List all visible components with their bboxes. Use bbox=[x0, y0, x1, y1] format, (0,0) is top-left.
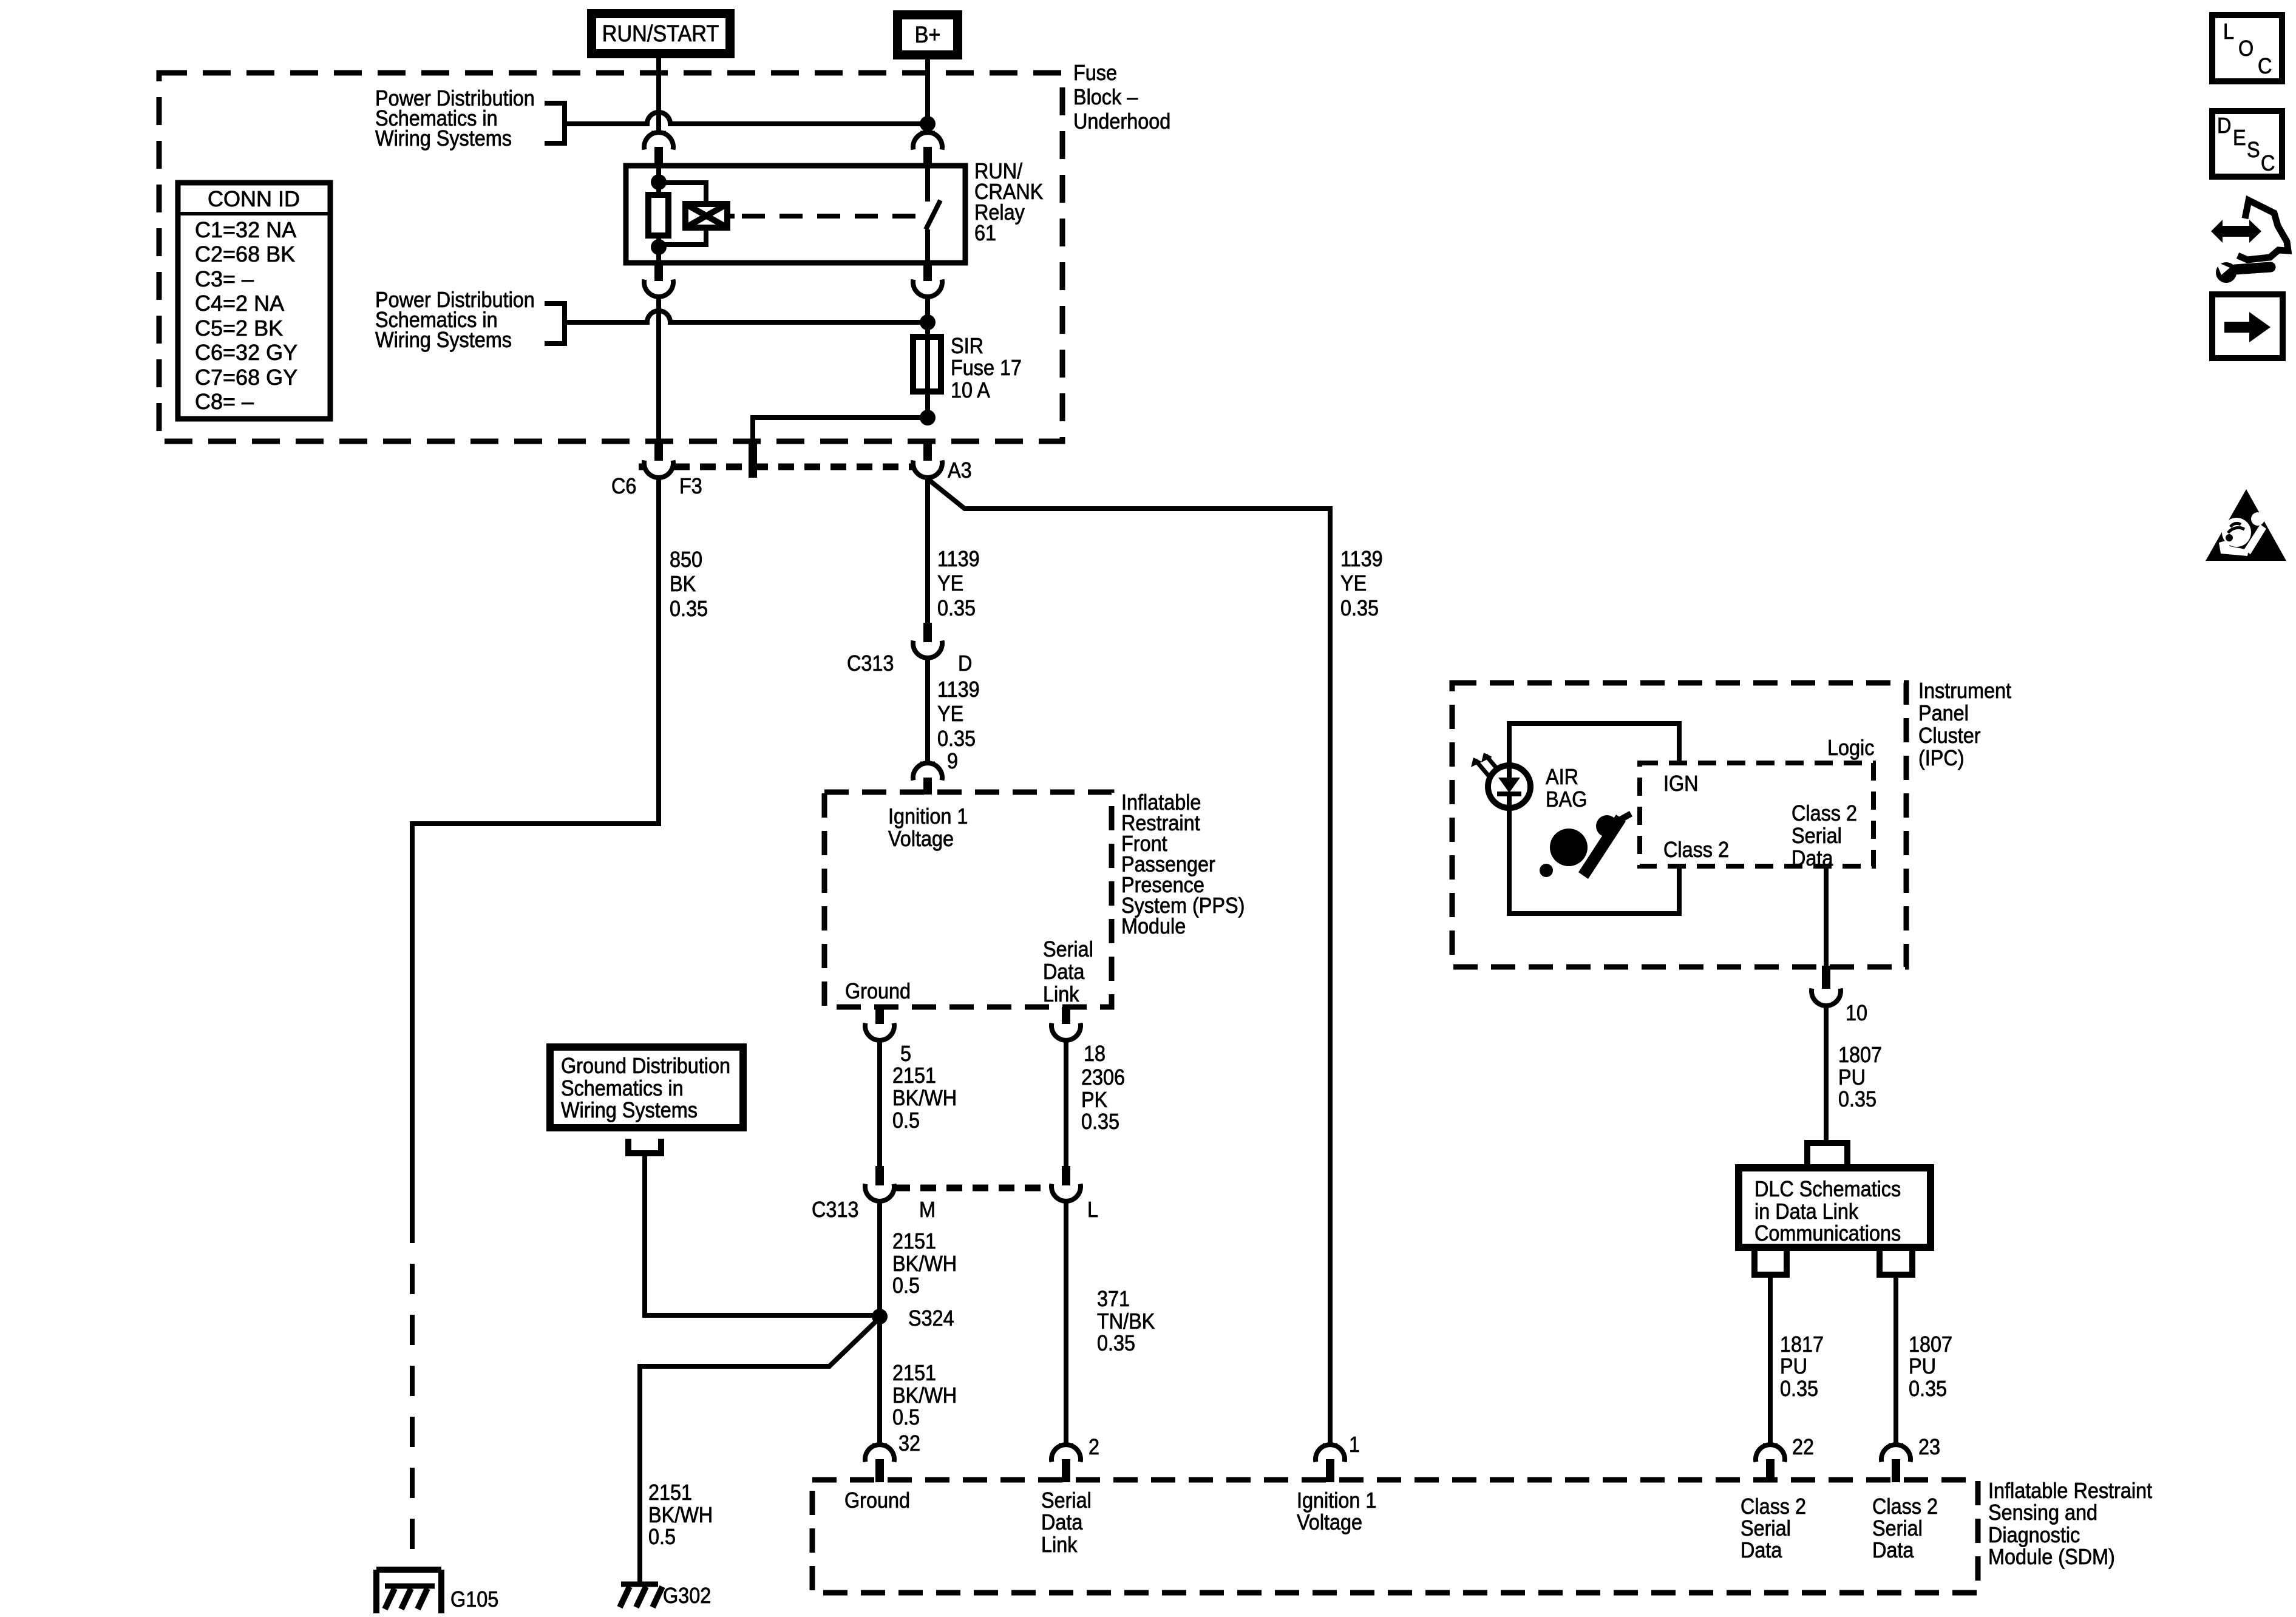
svg-text:1817: 1817 bbox=[1780, 1332, 1824, 1357]
svg-text:O: O bbox=[2238, 36, 2254, 61]
wire C313 L down to SDM pin 2 bbox=[1064, 1201, 1068, 1445]
wire class 2 serial data down to IPC pin 10 bbox=[1824, 866, 1829, 966]
icon adjust/replace (double arrow with wrench) bbox=[2211, 200, 2288, 283]
svg-text:0.5: 0.5 bbox=[648, 1525, 676, 1549]
wire C6 down, across and to G105 (solid part) bbox=[412, 478, 659, 1213]
junction coil top bbox=[651, 174, 667, 190]
svg-text:BK/WH: BK/WH bbox=[892, 1383, 957, 1408]
svg-text:0.35: 0.35 bbox=[1340, 596, 1379, 620]
label Ignition 1 Voltage (SDM) bbox=[1297, 1488, 1376, 1534]
relay control dashed line bbox=[727, 214, 735, 219]
svg-text:PU: PU bbox=[1780, 1354, 1807, 1378]
wire A3 to ignition feed (diagonal, across, down to SDM pin 1) bbox=[928, 479, 1330, 1445]
label Class 2 Serial Data (logic) bbox=[1792, 801, 1857, 870]
connector: below relay coil side bbox=[644, 260, 673, 297]
bracket below ground distribution box bbox=[625, 1139, 664, 1153]
junction above fuse bbox=[920, 314, 936, 330]
svg-text:C313: C313 bbox=[847, 651, 894, 676]
connector C313 cavity D bbox=[913, 623, 942, 658]
label 2306 PK 0.35 bbox=[1081, 1065, 1125, 1134]
connector PPS pin 5 bbox=[865, 1007, 894, 1040]
svg-text:0.35: 0.35 bbox=[937, 727, 976, 751]
svg-text:1807: 1807 bbox=[1838, 1043, 1882, 1067]
wire Class 2 from logic to lamp circuit bbox=[1677, 866, 1682, 914]
airbag indicator circuit box bbox=[1509, 724, 1679, 914]
svg-text:Class 2: Class 2 bbox=[1741, 1494, 1806, 1519]
svg-text:C3= –: C3= – bbox=[195, 266, 254, 291]
wire from bracket to fuse junction (hops over left wire) bbox=[565, 311, 925, 322]
bracket above DLC box bbox=[1807, 1143, 1847, 1167]
bracket for middle power distribution reference bbox=[545, 303, 565, 344]
svg-text:Instrument: Instrument bbox=[1918, 679, 2011, 703]
icon DESC bbox=[2212, 111, 2282, 177]
svg-text:Diagnostic: Diagnostic bbox=[1988, 1523, 2080, 1547]
svg-text:Serial: Serial bbox=[1043, 937, 1093, 961]
wire DLC to SDM pin 22 bbox=[1768, 1275, 1773, 1445]
label 1817 PU 0.35 bbox=[1780, 1332, 1824, 1401]
LED indicator (AIR BAG lamp) bbox=[1488, 765, 1530, 808]
wire IGN into logic bbox=[1677, 724, 1682, 763]
junction below fuse bbox=[920, 410, 936, 425]
svg-text:A3: A3 bbox=[948, 458, 972, 483]
svg-text:Ignition 1: Ignition 1 bbox=[888, 804, 968, 829]
connector IPC pin 10 bbox=[1812, 966, 1841, 1006]
svg-text:L: L bbox=[2223, 19, 2234, 44]
label Serial Data Link (SDM) bbox=[1041, 1488, 1092, 1557]
svg-text:18: 18 bbox=[1084, 1042, 1106, 1066]
svg-text:Data: Data bbox=[1872, 1538, 1914, 1562]
svg-text:YE: YE bbox=[937, 571, 963, 595]
relay switch contact bbox=[926, 166, 940, 260]
ground G105 bbox=[376, 1570, 498, 1613]
svg-text:C8= –: C8= – bbox=[195, 389, 254, 414]
svg-text:B+: B+ bbox=[915, 21, 941, 47]
DLC Schematics reference box bbox=[1739, 1168, 1931, 1247]
svg-text:Underhood: Underhood bbox=[1073, 109, 1170, 134]
svg-text:Cluster: Cluster bbox=[1918, 724, 1981, 748]
svg-text:Class 2: Class 2 bbox=[1663, 838, 1729, 862]
label RUN/CRANK Relay 61 bbox=[974, 159, 1044, 245]
svg-text:61: 61 bbox=[974, 221, 996, 245]
airbag telltale pictogram bbox=[1540, 811, 1632, 879]
stub pin into fuse block connector line bbox=[749, 441, 757, 478]
svg-text:DLC Schematics: DLC Schematics bbox=[1754, 1177, 1901, 1201]
svg-text:Fuse 17: Fuse 17 bbox=[951, 356, 1022, 380]
svg-text:YE: YE bbox=[937, 702, 963, 726]
svg-text:2151: 2151 bbox=[892, 1063, 936, 1088]
svg-text:Data: Data bbox=[1041, 1510, 1083, 1534]
svg-text:Data: Data bbox=[1043, 960, 1085, 984]
svg-text:0.35: 0.35 bbox=[1909, 1377, 1947, 1401]
svg-text:2151: 2151 bbox=[892, 1361, 936, 1385]
label 1139 YE 0.35 (above C313) bbox=[937, 547, 980, 620]
label Inflatable Restraint Sensing and Diagnostic Module (SDM) bbox=[1988, 1479, 2153, 1569]
svg-text:Logic: Logic bbox=[1827, 736, 1874, 760]
svg-text:BK/WH: BK/WH bbox=[892, 1086, 957, 1110]
svg-text:10: 10 bbox=[1846, 1001, 1867, 1025]
svg-text:Inflatable Restraint: Inflatable Restraint bbox=[1988, 1479, 2153, 1503]
svg-text:1807: 1807 bbox=[1909, 1332, 1952, 1357]
svg-text:IGN: IGN bbox=[1663, 771, 1699, 796]
wire through fuse to lower junction bbox=[925, 340, 930, 418]
CONN ID table bbox=[178, 183, 330, 419]
label 1807 PU 0.35 (pin 10 wire) bbox=[1838, 1043, 1882, 1111]
connector A3 pin bbox=[913, 444, 942, 478]
svg-text:M: M bbox=[919, 1198, 936, 1222]
svg-text:32: 32 bbox=[898, 1431, 920, 1456]
svg-text:C: C bbox=[2261, 151, 2275, 175]
wire DLC to SDM pin 23 bbox=[1894, 1275, 1898, 1445]
svg-text:0.35: 0.35 bbox=[1838, 1087, 1877, 1111]
node B+ bbox=[898, 15, 958, 55]
wire B+ down bbox=[925, 55, 930, 132]
svg-text:BK: BK bbox=[670, 572, 696, 596]
junction S324 bbox=[872, 1309, 888, 1324]
label SIR Fuse 17 10 A bbox=[951, 334, 1022, 402]
label 2151 BK/WH 0.5 (below S324) bbox=[892, 1361, 957, 1429]
fuse block connector C2 dotted line bbox=[639, 464, 912, 470]
svg-text:0.35: 0.35 bbox=[1097, 1331, 1135, 1355]
svg-text:Ignition 1: Ignition 1 bbox=[1297, 1488, 1376, 1513]
svg-text:PU: PU bbox=[1909, 1354, 1936, 1378]
svg-text:Module (SDM): Module (SDM) bbox=[1988, 1545, 2115, 1569]
IPC dashed box bbox=[1452, 683, 1906, 967]
svg-text:BAG: BAG bbox=[1546, 787, 1587, 812]
svg-text:1139: 1139 bbox=[937, 547, 980, 571]
label Serial Data Link (PPS) bbox=[1043, 937, 1093, 1006]
wire pin 10 to DLC bracket bbox=[1824, 1006, 1829, 1141]
svg-text:371: 371 bbox=[1097, 1287, 1130, 1311]
svg-text:9: 9 bbox=[947, 749, 958, 773]
label 2151 BK/WH 0.5 (below M) bbox=[892, 1229, 957, 1298]
svg-text:C5=2 BK: C5=2 BK bbox=[195, 316, 283, 341]
Ground Distribution reference box bbox=[550, 1047, 743, 1128]
label Power Distribution (top) bbox=[375, 86, 535, 151]
svg-text:1139: 1139 bbox=[937, 677, 980, 702]
svg-text:C1=32 NA: C1=32 NA bbox=[195, 217, 296, 242]
svg-text:5: 5 bbox=[900, 1042, 911, 1066]
svg-text:Panel: Panel bbox=[1918, 701, 1969, 725]
svg-text:1139: 1139 bbox=[1340, 547, 1383, 571]
wire down to fuse bbox=[925, 297, 930, 340]
svg-text:2306: 2306 bbox=[1081, 1065, 1125, 1090]
svg-text:Block –: Block – bbox=[1073, 85, 1138, 109]
svg-text:YE: YE bbox=[1340, 571, 1367, 595]
svg-text:Wiring Systems: Wiring Systems bbox=[375, 126, 512, 151]
svg-text:10 A: 10 A bbox=[951, 378, 990, 402]
wire pin 5 to C313 M bbox=[877, 1040, 882, 1166]
wire from fuse junction to connector stub bbox=[753, 418, 928, 443]
svg-text:0.35: 0.35 bbox=[670, 597, 708, 621]
wire solenoid branch top bbox=[659, 183, 706, 204]
node RUN/START bbox=[592, 14, 730, 54]
C313 dotted connector line bbox=[894, 1185, 1051, 1192]
svg-text:Communications: Communications bbox=[1754, 1221, 1901, 1246]
svg-text:G302: G302 bbox=[663, 1584, 711, 1608]
svg-text:1: 1 bbox=[1349, 1432, 1360, 1457]
label Class 2 Serial Data (SDM pin 23) bbox=[1872, 1494, 1938, 1562]
connector SDM pin 23 bbox=[1881, 1445, 1911, 1482]
svg-text:C2=68 BK: C2=68 BK bbox=[195, 242, 295, 266]
icon forward arrow bbox=[2212, 294, 2283, 358]
svg-text:Voltage: Voltage bbox=[888, 827, 954, 851]
label 1807 PU 0.35 (pin 23 wire) bbox=[1909, 1332, 1952, 1401]
svg-text:BK/WH: BK/WH bbox=[648, 1503, 713, 1527]
wire S324 to G302 bbox=[640, 1318, 880, 1584]
wire down to C6 bbox=[656, 297, 661, 446]
svg-text:0.35: 0.35 bbox=[1081, 1110, 1119, 1134]
svg-text:Module: Module bbox=[1121, 914, 1186, 938]
svg-text:Wiring Systems: Wiring Systems bbox=[561, 1098, 698, 1122]
connector PPS pin 18 bbox=[1051, 1007, 1081, 1040]
label 1139 YE 0.35 (ignition feed) bbox=[1340, 547, 1383, 620]
label Inflatable Restraint Front Passenger Presence System (PPS) Module bbox=[1121, 790, 1245, 938]
svg-text:E: E bbox=[2233, 126, 2246, 150]
svg-text:2: 2 bbox=[1089, 1435, 1099, 1459]
svg-text:Voltage: Voltage bbox=[1297, 1510, 1362, 1534]
svg-text:C313: C313 bbox=[812, 1198, 858, 1222]
svg-text:22: 22 bbox=[1792, 1435, 1814, 1459]
bracket below DLC box (right) bbox=[1877, 1249, 1915, 1275]
connector: below relay switch side bbox=[913, 260, 942, 297]
connector: coil side into relay bbox=[644, 132, 673, 168]
wire pin 18 to C313 L bbox=[1064, 1040, 1068, 1166]
label Ignition 1 Voltage (PPS) bbox=[888, 804, 968, 851]
light emission arrows bbox=[1471, 753, 1499, 776]
svg-text:L: L bbox=[1087, 1198, 1098, 1222]
svg-text:Serial: Serial bbox=[1792, 824, 1842, 848]
svg-text:TN/BK: TN/BK bbox=[1097, 1309, 1155, 1334]
wire RUN/START down bbox=[656, 54, 661, 132]
wire C313 to PPS pin 9 bbox=[925, 658, 930, 763]
svg-text:0.5: 0.5 bbox=[892, 1405, 920, 1429]
svg-text:Link: Link bbox=[1043, 982, 1079, 1006]
svg-text:Serial: Serial bbox=[1741, 1516, 1791, 1541]
svg-text:Data: Data bbox=[1741, 1538, 1782, 1562]
label 371 TN/BK 0.35 bbox=[1097, 1287, 1155, 1355]
svg-text:2151: 2151 bbox=[648, 1480, 692, 1505]
svg-text:23: 23 bbox=[1918, 1435, 1940, 1459]
label Class 2 Serial Data (SDM pin 22) bbox=[1741, 1494, 1806, 1562]
Logic dashed box bbox=[1640, 763, 1873, 866]
svg-text:SIR: SIR bbox=[951, 334, 983, 358]
junction on B+ wire bbox=[920, 116, 936, 132]
icon LOC bbox=[2212, 15, 2282, 81]
svg-text:PK: PK bbox=[1081, 1088, 1107, 1112]
wire solenoid branch bottom bbox=[662, 228, 706, 245]
wire C313 M down to SDM pin 32 bbox=[877, 1201, 882, 1445]
connector C313 cavity M bbox=[865, 1166, 894, 1201]
connector SDM pin 32 bbox=[865, 1445, 894, 1482]
label AIR BAG bbox=[1546, 765, 1587, 812]
svg-text:CONN ID: CONN ID bbox=[208, 186, 300, 211]
connector PPS pin 9 bbox=[913, 763, 942, 795]
svg-text:0.5: 0.5 bbox=[892, 1273, 920, 1298]
svg-text:Serial: Serial bbox=[1041, 1488, 1092, 1513]
svg-text:Wiring Systems: Wiring Systems bbox=[375, 328, 512, 352]
svg-text:S324: S324 bbox=[908, 1306, 954, 1331]
SDM dashed box bbox=[812, 1480, 1978, 1593]
relay RUN/CRANK box bbox=[626, 166, 965, 263]
wire to G105 (dashed shared part) bbox=[410, 1213, 415, 1570]
svg-text:D: D bbox=[2217, 114, 2231, 138]
fuse block - underhood dashed box bbox=[159, 73, 1062, 441]
icon SIR caution triangle bbox=[2206, 489, 2286, 561]
svg-text:PU: PU bbox=[1838, 1065, 1866, 1090]
svg-text:Sensing and: Sensing and bbox=[1988, 1500, 2097, 1525]
svg-text:850: 850 bbox=[670, 547, 702, 572]
relay coil X-box symbol bbox=[685, 204, 727, 228]
connector SDM pin 22 bbox=[1756, 1445, 1785, 1482]
svg-text:Ground: Ground bbox=[845, 979, 911, 1003]
svg-text:Fuse: Fuse bbox=[1073, 61, 1117, 85]
svg-text:AIR: AIR bbox=[1546, 765, 1578, 789]
junction coil bottom bbox=[651, 239, 667, 255]
connector C313 cavity L bbox=[1051, 1166, 1081, 1201]
fuse SIR Fuse 17 bbox=[913, 337, 941, 392]
wire relay coil bottom lead bbox=[656, 236, 661, 260]
ground G302 bbox=[620, 1584, 711, 1608]
svg-text:C7=68 GY: C7=68 GY bbox=[195, 365, 297, 390]
wire A3 down to C313 bbox=[925, 478, 930, 623]
connector SDM pin 2 bbox=[1051, 1445, 1081, 1482]
resistor (relay coil) bbox=[648, 195, 668, 236]
svg-text:D: D bbox=[958, 651, 972, 676]
svg-text:0.35: 0.35 bbox=[937, 596, 976, 620]
bracket below DLC box (left) bbox=[1751, 1249, 1790, 1275]
label 850 BK 0.35 bbox=[670, 547, 708, 621]
svg-text:Link: Link bbox=[1041, 1533, 1078, 1557]
svg-text:Ground Distribution: Ground Distribution bbox=[561, 1054, 730, 1078]
label Instrument Panel Cluster (IPC) bbox=[1918, 679, 2011, 770]
label Fuse Block - Underhood bbox=[1073, 61, 1170, 134]
label 2151 BK/WH 0.5 (pin 5) bbox=[892, 1063, 957, 1133]
svg-text:RUN/START: RUN/START bbox=[602, 20, 719, 46]
svg-text:G105: G105 bbox=[450, 1587, 498, 1612]
PPS module dashed box bbox=[824, 792, 1112, 1007]
svg-text:C6: C6 bbox=[611, 474, 636, 498]
wire relay coil top lead bbox=[656, 166, 661, 195]
svg-text:Class 2: Class 2 bbox=[1792, 801, 1857, 825]
svg-text:2151: 2151 bbox=[892, 1229, 936, 1253]
svg-text:Schematics in: Schematics in bbox=[561, 1076, 684, 1100]
svg-text:S: S bbox=[2247, 138, 2260, 162]
svg-text:C6=32 GY: C6=32 GY bbox=[195, 340, 297, 365]
connector C6 pin bbox=[644, 444, 673, 478]
svg-text:Serial: Serial bbox=[1872, 1516, 1923, 1541]
connector: switch side into relay bbox=[913, 132, 942, 168]
connector SDM pin 1 bbox=[1316, 1445, 1345, 1482]
wire ground distribution to S324 bbox=[645, 1153, 877, 1315]
label 2151 BK/WH 0.5 (G302 wire) bbox=[648, 1480, 713, 1549]
bracket for top power distribution reference bbox=[545, 103, 565, 143]
svg-text:C4=2 NA: C4=2 NA bbox=[195, 291, 284, 316]
svg-text:in Data Link: in Data Link bbox=[1754, 1199, 1859, 1224]
label 1139 YE 0.35 (below C313) bbox=[937, 677, 980, 751]
svg-text:Ground: Ground bbox=[844, 1488, 910, 1513]
svg-text:0.35: 0.35 bbox=[1780, 1377, 1818, 1401]
svg-text:F3: F3 bbox=[679, 474, 702, 498]
svg-text:BK/WH: BK/WH bbox=[892, 1252, 957, 1276]
svg-text:0.5: 0.5 bbox=[892, 1108, 920, 1133]
svg-text:(IPC): (IPC) bbox=[1918, 746, 1965, 770]
svg-text:C: C bbox=[2258, 54, 2272, 78]
label Power Distribution (middle) bbox=[375, 288, 535, 352]
wire from bracket to B+ line (hops over RUN/START wire) bbox=[565, 112, 925, 124]
svg-text:Class 2: Class 2 bbox=[1872, 1494, 1938, 1519]
